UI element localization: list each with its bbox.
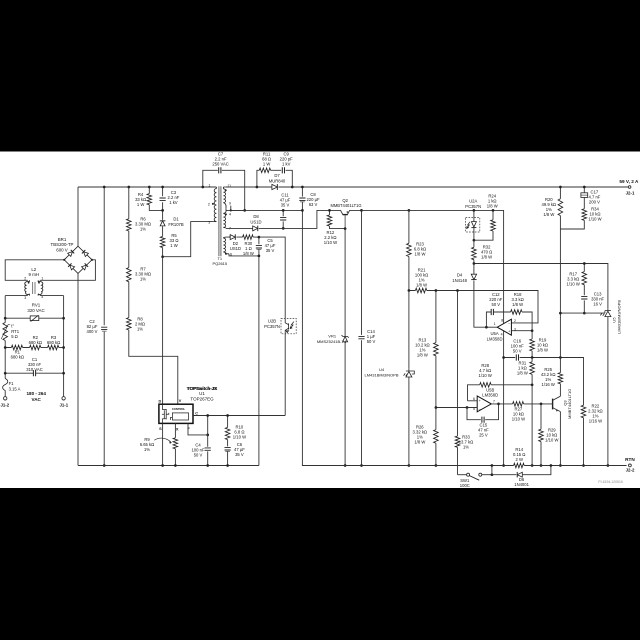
wire U1 F pin jog [188, 423, 208, 435]
wire ref line [560, 312, 605, 314]
svg-text:1 W: 1 W [263, 161, 270, 166]
wire sense rail [474, 264, 608, 309]
svg-text:PI-6194-120516: PI-6194-120516 [598, 480, 622, 484]
resistor R27 [513, 402, 524, 407]
resistor R31 [531, 358, 533, 466]
terminal J2-2 RTN [629, 464, 632, 467]
wire BR1 minus to primary ground bus [77, 273, 79, 465]
svg-text:MUR840: MUR840 [269, 178, 286, 183]
svg-text:1/8 W: 1/8 W [416, 283, 427, 288]
svg-text:PC357N: PC357N [264, 324, 280, 329]
svg-text:1/8 W: 1/8 W [517, 371, 528, 376]
wire U1 X pin [174, 423, 176, 465]
resistor R4 clamp [149, 187, 162, 210]
capacitor C13 [583, 300, 585, 313]
transformer T1 bias winding [223, 237, 226, 238]
svg-text:50 V: 50 V [491, 302, 500, 307]
svg-text:200 V: 200 V [589, 199, 600, 204]
resistor R32 [473, 240, 475, 263]
svg-text:59 V, 2 A: 59 V, 2 A [619, 179, 639, 184]
resistor R2 [30, 345, 41, 350]
transformer T1 primary winding [215, 187, 217, 189]
svg-text:3.15 A: 3.15 A [9, 386, 21, 391]
wire U5B inverting input [468, 400, 478, 402]
svg-text:100C: 100C [460, 483, 470, 488]
wire right input column [63, 296, 65, 397]
diode D8 [226, 210, 330, 228]
capacitor C12 [486, 312, 510, 327]
thermal switch SW1 [458, 474, 467, 476]
svg-text:310 VAC: 310 VAC [26, 367, 42, 372]
resistor R22 [581, 405, 586, 418]
transistor Q3 [552, 399, 554, 410]
wire drain node from transformer pin 3 [163, 222, 214, 257]
wire secondary ground bus right part [524, 465, 626, 467]
U1 internal mosfet [162, 404, 172, 423]
wire bias supply to optocoupler U2B collector [259, 237, 285, 318]
svg-text:RTN: RTN [625, 457, 635, 462]
svg-text:1/10 W: 1/10 W [588, 216, 601, 221]
svg-text:35 V: 35 V [235, 452, 244, 457]
wire U1 C pin line [193, 415, 285, 417]
wire secondary midpoint [226, 206, 231, 211]
resistor R10 [227, 416, 229, 428]
resistor R17 [583, 264, 585, 296]
diode D1 clamp [160, 221, 166, 226]
svg-text:+: + [479, 399, 481, 403]
svg-text:1%: 1% [140, 227, 146, 232]
common mode choke L2 [25, 280, 30, 295]
svg-text:1 W: 1 W [170, 243, 177, 248]
svg-text:1/10 W: 1/10 W [512, 417, 525, 422]
svg-text:1/10 W: 1/10 W [545, 438, 558, 443]
capacitor C6 [227, 440, 229, 466]
svg-text:LM431BIM3/NOPB: LM431BIM3/NOPB [364, 372, 398, 377]
varistor RV1 [5, 317, 63, 319]
svg-text:1/8 W: 1/8 W [543, 212, 554, 217]
diode D2 bias [226, 236, 243, 238]
wire U5A noninverting input node [511, 330, 532, 332]
diode D7 [272, 184, 277, 190]
svg-text:50 V: 50 V [367, 339, 376, 344]
wire secondary ground bus left part [302, 465, 513, 467]
shunt regulator U4 [404, 369, 415, 382]
svg-text:1/8 W: 1/8 W [417, 353, 428, 358]
svg-text:2: 2 [24, 276, 26, 280]
svg-text:+: + [508, 329, 510, 333]
wire U5 anode to ground [607, 320, 609, 466]
svg-text:MMBT4401LT1G: MMBT4401LT1G [567, 389, 572, 419]
svg-text:1/8 W: 1/8 W [414, 440, 425, 445]
svg-text:J1-1: J1-1 [59, 403, 68, 408]
resistor R1 [5, 347, 29, 349]
capacitor C7 primary Y-cap [203, 170, 245, 210]
bridge rectifier BR1 [64, 246, 92, 273]
wire Q3 collector emitter [559, 384, 561, 466]
wire L2 pin 3 to left column [5, 295, 28, 297]
svg-text:1/8 W: 1/8 W [537, 348, 548, 353]
resistor R20 [559, 187, 561, 229]
resistor R18 [511, 310, 522, 315]
svg-text:1N4148: 1N4148 [452, 278, 467, 283]
capacitor C3 clamp [162, 187, 164, 220]
svg-text:9 mH: 9 mH [29, 272, 40, 277]
capacitor C5 [258, 237, 260, 256]
wire L2 pin 1 to BR1 right AC input [40, 260, 96, 281]
resistor R26 [435, 408, 437, 466]
svg-text:CONTROL: CONTROL [172, 407, 186, 411]
svg-text:50 V: 50 V [513, 349, 522, 354]
svg-text:t°: t° [11, 323, 14, 328]
svg-text:S: S [159, 426, 162, 431]
svg-text:FR107B: FR107B [168, 222, 184, 227]
wire U1 S pin to ground [162, 423, 164, 465]
resistor R13 [435, 291, 437, 408]
svg-text:1/8 W: 1/8 W [512, 302, 523, 307]
wire output rail [226, 186, 628, 188]
resistor R12 [330, 210, 346, 228]
svg-text:MMBT4401LT1G: MMBT4401LT1G [330, 203, 361, 208]
svg-text:1/10 W: 1/10 W [567, 281, 580, 286]
resistor R6 [127, 219, 132, 231]
terminal J1-2 [3, 397, 6, 400]
svg-text:25 V: 25 V [479, 433, 488, 438]
svg-text:1: 1 [41, 276, 43, 280]
diode D4 [474, 264, 487, 328]
svg-text:1/8 W: 1/8 W [415, 251, 426, 256]
svg-text:1/10 W: 1/10 W [233, 435, 246, 440]
svg-text:180 - 264: 180 - 264 [26, 391, 46, 396]
svg-text:BR1: BR1 [58, 237, 67, 242]
wire U5B output [491, 403, 512, 405]
svg-text:1N4001: 1N4001 [514, 482, 529, 487]
wire drain to TOPSwitch D pin [162, 257, 164, 405]
terminal J1-1 [62, 397, 65, 400]
svg-text:1/16 W: 1/16 W [589, 419, 602, 424]
wire BR1 left AC input to L2 pin 2 [5, 260, 64, 281]
capacitor C14 [361, 210, 363, 465]
svg-text:PQ2615: PQ2615 [212, 261, 227, 266]
svg-text:320 VAC: 320 VAC [27, 308, 44, 313]
capacitor C11 [282, 210, 284, 228]
resistor R30 [243, 235, 254, 240]
svg-text:1%: 1% [137, 326, 143, 331]
capacitor C2 [103, 187, 105, 466]
svg-text:1/8 W: 1/8 W [487, 204, 498, 209]
resistor R24 [474, 210, 493, 240]
op-amp U5A [497, 319, 511, 335]
capacitor C17 [583, 187, 585, 193]
wire U5A output [486, 326, 497, 328]
wire bias winding return [229, 254, 259, 466]
svg-text:2: 2 [208, 202, 210, 206]
svg-text:1 W: 1 W [137, 202, 144, 207]
svg-text:5 Ω: 5 Ω [11, 334, 18, 339]
transformer T1 secondary winding upper [222, 187, 224, 189]
svg-text:4: 4 [229, 212, 231, 216]
wire secondary midpoint line to C8 [231, 209, 303, 211]
resistor R33 [457, 291, 459, 475]
wire BR1 plus output riser [77, 187, 79, 246]
svg-text:VR1: VR1 [328, 334, 337, 339]
svg-text:680 kΩ: 680 kΩ [47, 340, 60, 345]
svg-text:V: V [179, 398, 182, 403]
svg-text:7: 7 [493, 400, 495, 404]
transistor Q2 [330, 210, 362, 214]
svg-text:1: 1 [494, 322, 496, 326]
capacitor C1 [5, 372, 63, 374]
svg-text:1/8 W: 1/8 W [481, 255, 492, 260]
resistor R5 [162, 226, 164, 257]
svg-text:35 V: 35 V [281, 202, 290, 207]
resistor R9 [173, 438, 178, 449]
wire left input column [4, 296, 6, 397]
svg-text:63 V: 63 V [309, 202, 318, 207]
svg-text:U1: U1 [199, 391, 205, 396]
svg-text:TOPSwitch-JX: TOPSwitch-JX [187, 386, 218, 391]
resistor R3 [48, 345, 59, 350]
svg-text:35 V: 35 V [266, 248, 275, 253]
svg-text:MMSZ5241B-7-F: MMSZ5241B-7-F [317, 339, 348, 344]
wire divider node down [559, 229, 561, 384]
svg-text:2 W: 2 W [515, 457, 522, 462]
resistor R29 [540, 404, 542, 466]
wire L2 pin 4 to right column [40, 295, 64, 297]
svg-text:LM358D: LM358D [482, 393, 498, 398]
svg-text:X: X [176, 427, 179, 432]
wire bias rail Q2 to U2A [362, 210, 504, 465]
fuse F1 [3, 379, 8, 391]
TOPSwitch U1 body box [159, 404, 193, 423]
capacitor C4 [207, 416, 209, 466]
shunt regulator U5 [600, 308, 611, 320]
capacitor C15 [467, 404, 499, 420]
resistor R19 [531, 331, 533, 358]
op-amp U5B [477, 396, 491, 412]
resistor R25 [558, 373, 563, 384]
svg-text:LM358D: LM358D [487, 336, 503, 341]
wire U5B noninverting input line [436, 407, 477, 409]
svg-text:2: 2 [514, 319, 516, 323]
svg-text:TOP267EG: TOP267EG [190, 397, 214, 402]
zener VR1 [344, 229, 346, 466]
snubber R11 C9 loop [257, 170, 292, 187]
svg-text:US1D: US1D [230, 246, 241, 251]
svg-text:LM431BIM3/NOPB: LM431BIM3/NOPB [616, 300, 621, 334]
capacitor C16 line [504, 358, 584, 406]
svg-text:1/10 W: 1/10 W [324, 240, 337, 245]
svg-text:C: C [195, 410, 198, 415]
svg-text:1/16 W: 1/16 W [542, 382, 555, 387]
svg-text:8: 8 [501, 319, 503, 323]
wire U4 anode to ground [408, 382, 410, 466]
wire top bus from bridge to transformer pin 1 [78, 186, 216, 188]
svg-text:J1-2: J1-2 [0, 403, 9, 408]
svg-text:D: D [158, 398, 161, 403]
svg-text:PC357N: PC357N [465, 204, 481, 209]
resistor R23 [408, 210, 410, 290]
wire primary ground bus [78, 465, 259, 467]
transformer T1 core [219, 186, 221, 256]
diode D6 [492, 466, 551, 475]
svg-text:50 V: 50 V [194, 453, 203, 458]
svg-text:16 V: 16 V [593, 301, 602, 306]
svg-text:1 kV: 1 kV [169, 200, 178, 205]
resistor R14 current sense [514, 463, 525, 468]
wire SW1 node riser [491, 466, 493, 475]
svg-text:680 kΩ: 680 kΩ [29, 340, 42, 345]
svg-text:1/10 W: 1/10 W [479, 373, 492, 378]
svg-text:TBS200-TP: TBS200-TP [51, 242, 74, 247]
resistor R8 [127, 318, 132, 330]
svg-text:1%: 1% [140, 276, 146, 281]
svg-text:9: 9 [229, 202, 231, 206]
svg-text:–: – [508, 321, 510, 325]
transformer T1 secondary winding lower [223, 208, 226, 213]
svg-text:J2-1: J2-1 [626, 191, 635, 196]
svg-text:1: 1 [209, 184, 211, 188]
svg-text:US1D: US1D [250, 219, 261, 224]
capacitor C8 [302, 187, 345, 466]
svg-text:3: 3 [24, 296, 26, 300]
svg-text:J2-2: J2-2 [626, 468, 635, 473]
thermistor RT1 [3, 323, 8, 341]
svg-text:680 kΩ: 680 kΩ [11, 354, 24, 359]
svg-text:600 V: 600 V [56, 248, 68, 253]
optocoupler U2B [281, 318, 296, 333]
resistor R21 [409, 291, 538, 323]
wire line sense column [129, 187, 178, 404]
svg-text:400 V: 400 V [87, 329, 98, 334]
terminal J2-1 [628, 186, 631, 189]
svg-text:3: 3 [208, 220, 210, 224]
resistor R7 [127, 268, 132, 282]
resistor R34 [560, 197, 584, 229]
svg-text:1%: 1% [463, 444, 469, 449]
svg-text:250 VAC: 250 VAC [212, 162, 228, 167]
svg-text:D1: D1 [173, 217, 179, 222]
svg-text:1 kV: 1 kV [282, 161, 291, 166]
resistor R28 [468, 385, 533, 401]
wire U2B emitter to C pin line [284, 334, 286, 416]
svg-text:–: – [479, 407, 481, 411]
wire R21 node to U4 [408, 291, 410, 369]
svg-text:VAC: VAC [32, 397, 42, 402]
optocoupler U2A [466, 218, 480, 232]
svg-text:1%: 1% [144, 447, 150, 452]
